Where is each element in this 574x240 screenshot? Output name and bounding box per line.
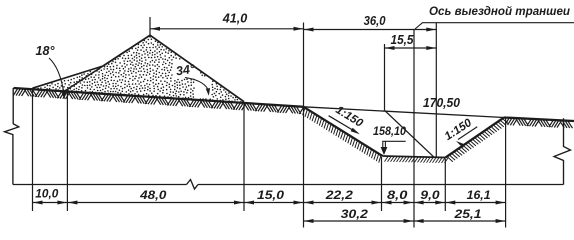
extension line x=32.5 (pile toe) [32,89,34,211]
dim row 2 line [304,220,506,222]
svg-text:34°: 34° [175,62,197,79]
arrow along left slope [329,116,358,133]
pile 18deg slope line [33,66,104,88]
dim 41,0 [150,28,304,30]
hatching along trench bottom [385,157,448,164]
baseline [13,184,187,186]
ground surface line right [504,118,574,122]
pile right slope [150,35,244,102]
svg-text:41,0: 41,0 [222,12,248,26]
svg-text:158,10: 158,10 [373,124,406,138]
svg-text:170,50: 170,50 [423,96,460,110]
hatching along trench left slope [303,109,381,163]
pile internal 34deg line [64,66,103,92]
axis label underline leader [415,23,574,29]
dim row 1 line [33,202,506,204]
pile 34deg left slope line [103,35,150,66]
svg-text:48,0: 48,0 [139,188,167,202]
trench axis line x=413.6 [413,29,415,228]
ground hatching right of trench [505,118,573,128]
dim row2 arrows [304,219,314,223]
ground surface line left [14,88,304,107]
svg-text:15,0: 15,0 [257,188,284,202]
svg-text:10,0: 10,0 [35,187,58,201]
extension line x=505.6 (trench top-right) [505,118,507,228]
arrow along right slope [458,127,477,140]
ground hatching left of trench [13,89,303,115]
extension line x=436.3 (top, down to trench bottom) [435,23,437,157]
baseline break zigzag [187,180,199,190]
extension line x=67.4 [66,92,68,211]
svg-text:Ось выездной траншеи: Ось выездной траншеи [429,4,571,18]
apex tick [149,17,151,36]
svg-text:36,0: 36,0 [364,14,386,28]
long extension line x=303.5 (trench top-left) [303,23,305,228]
baseline right part [198,184,564,186]
left break line with zigzag [5,88,19,185]
svg-text:16,1: 16,1 [467,188,491,202]
extension line x=445.3 (under B2) [444,159,446,212]
trench bottom [383,156,446,158]
svg-text:22,2: 22,2 [325,188,354,202]
internal diagonal to trench bottom [385,110,435,157]
dim 36,0 [304,29,437,31]
svg-text:25,1: 25,1 [453,207,482,221]
svg-text:15,5: 15,5 [391,33,415,47]
svg-text:30,2: 30,2 [341,207,368,221]
svg-text:8,0: 8,0 [387,188,408,202]
dim 15,5 [385,47,437,49]
leader arrow for 18deg [49,58,64,93]
leader arrow for 34deg [185,78,208,89]
svg-text:18°: 18° [36,44,56,58]
extension line x=381.5 (under B1) [381,157,383,211]
right break line with zigzag [554,118,571,184]
extension line x=244 (pile right toe) [243,102,245,211]
original ground line across trench (el.170,50) [304,107,505,118]
trench right slope [446,118,505,158]
spoil pile stipple fill [38,37,241,102]
extension line x=384.5 (top, to ground line) [384,44,386,110]
hatching along trench right slope [448,119,509,162]
dim row1 arrows [33,201,43,205]
svg-text:9,0: 9,0 [420,188,440,202]
trench left slope [304,107,383,156]
